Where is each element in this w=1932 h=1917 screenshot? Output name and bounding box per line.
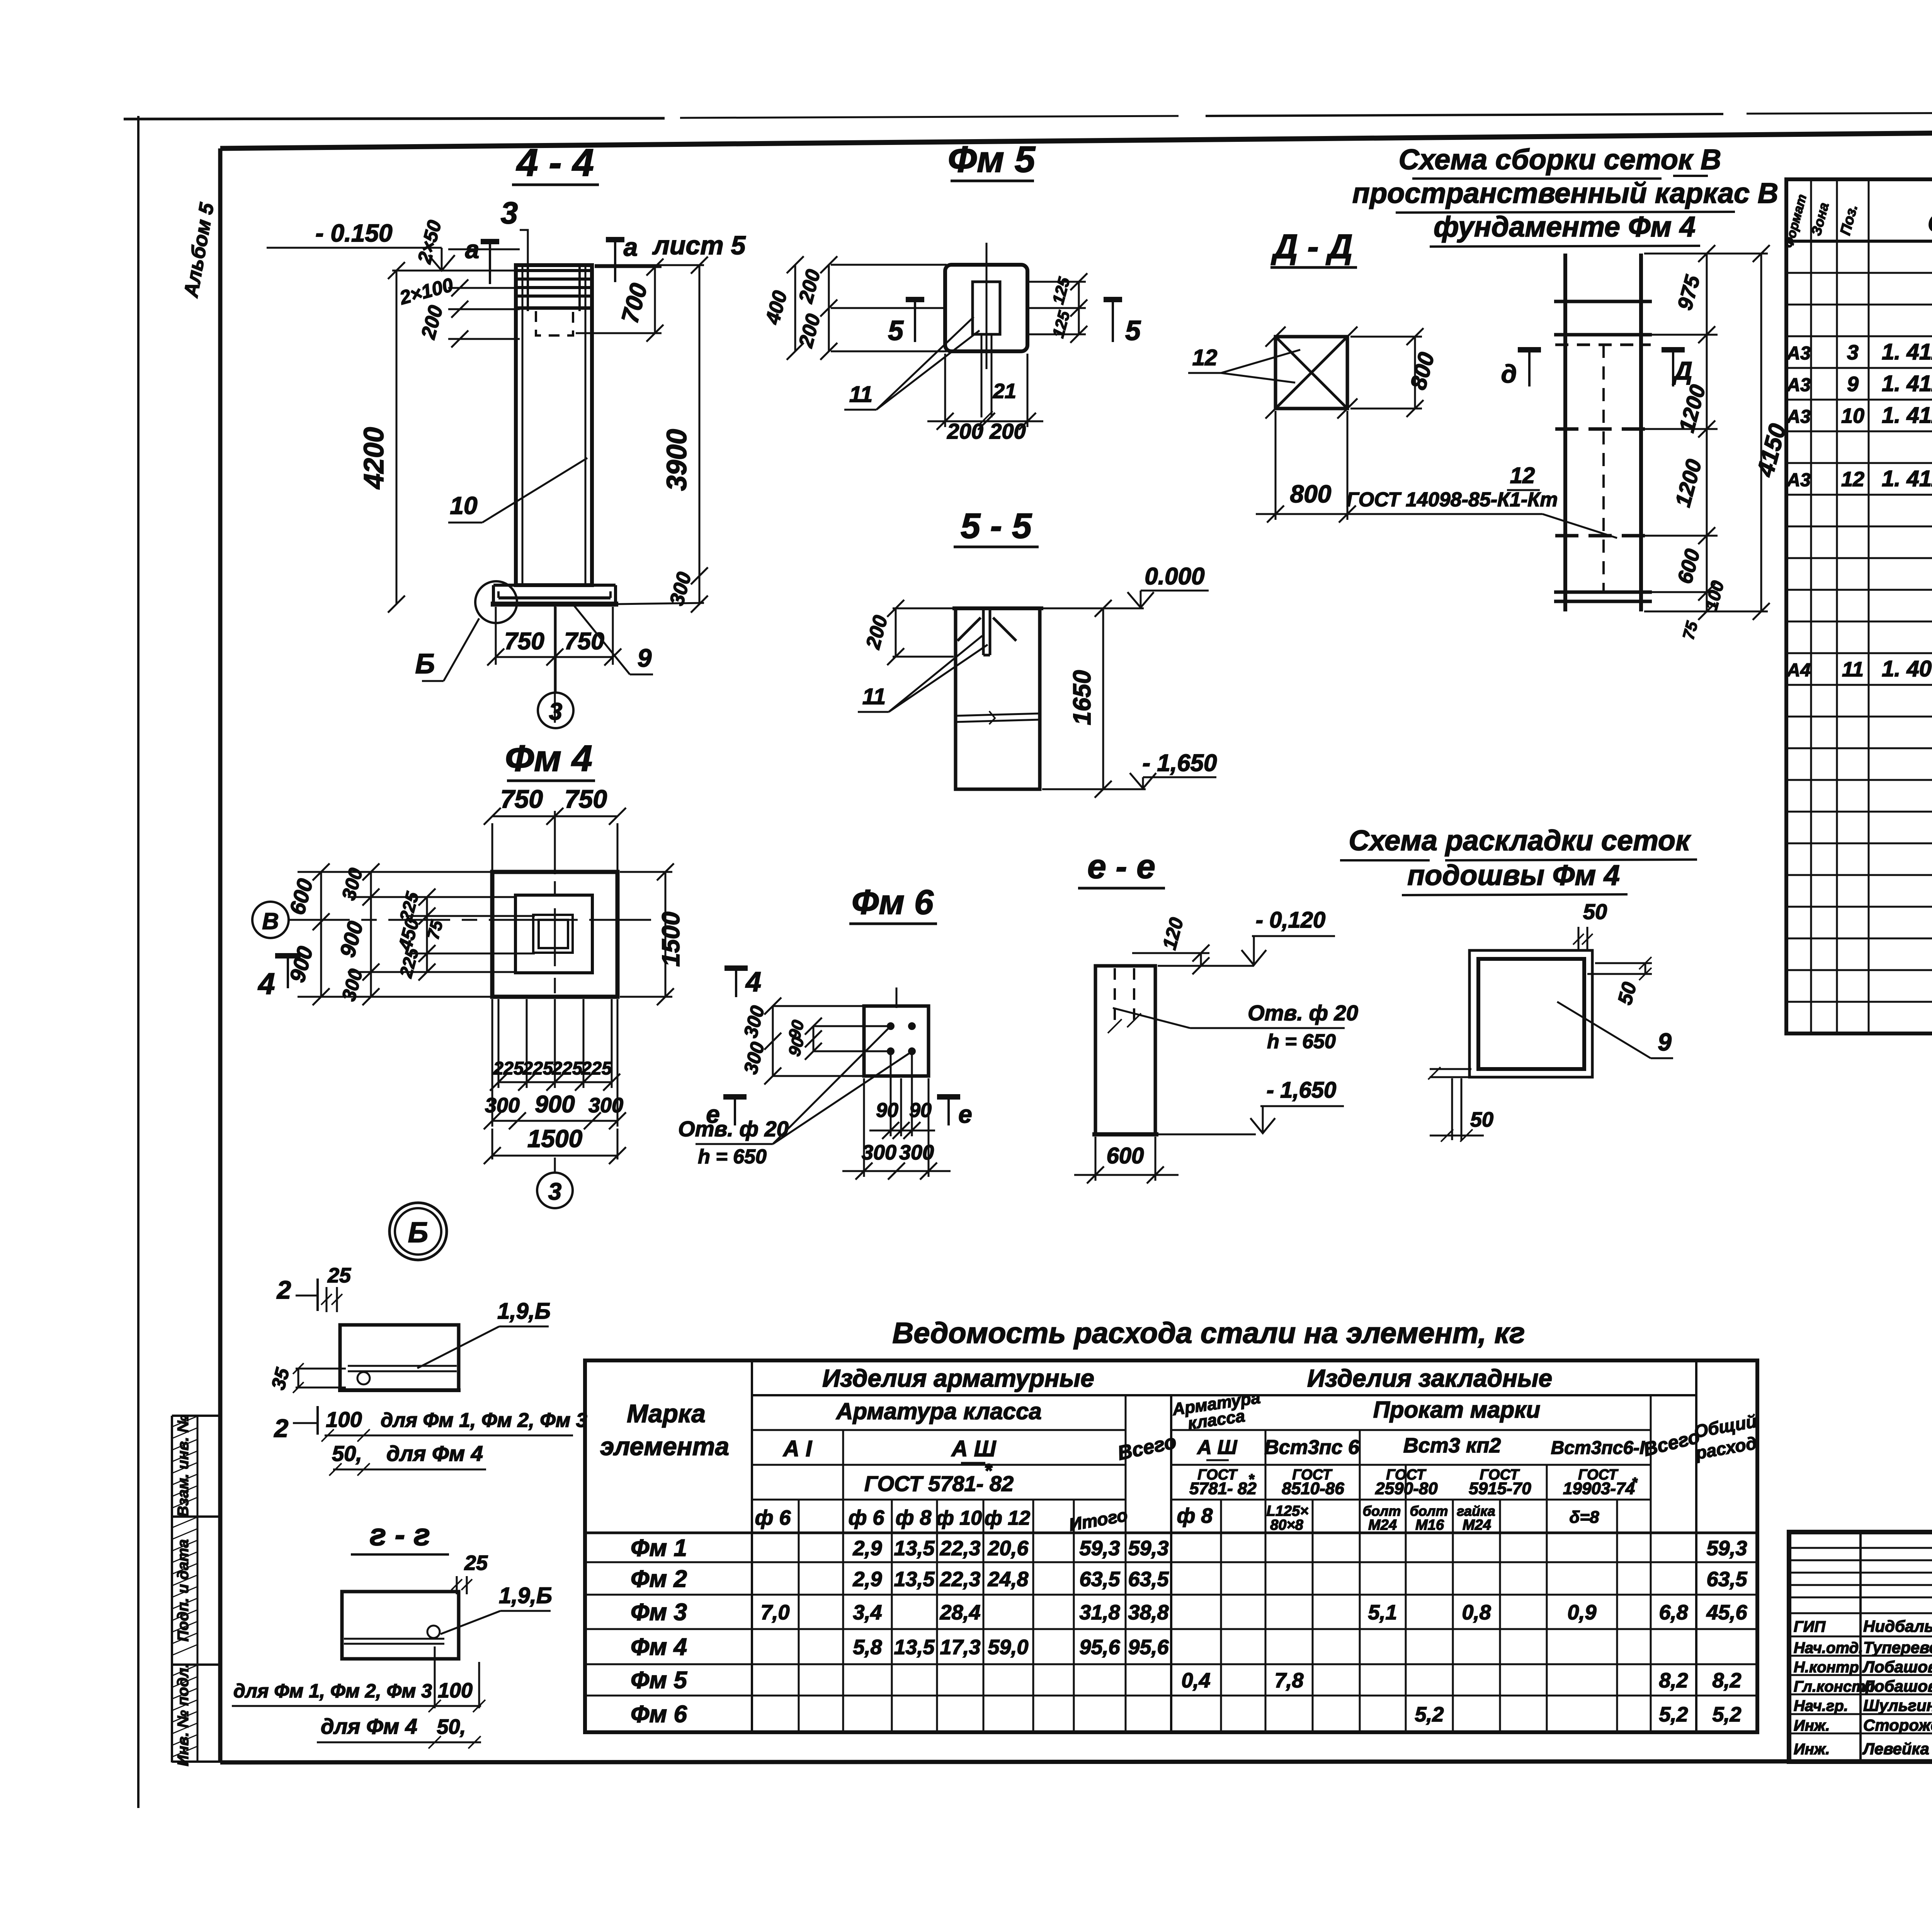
svg-text:5915-70: 5915-70 xyxy=(1469,1479,1531,1498)
break line xyxy=(956,713,1040,716)
svg-text:7,0: 7,0 xyxy=(760,1601,789,1624)
svg-text:ф 10: ф 10 xyxy=(936,1507,982,1529)
left dim column 300/900/300 xyxy=(370,872,372,997)
svg-text:пространственный каркас В: пространственный каркас В xyxy=(1352,177,1778,209)
svg-text:Фм 6: Фм 6 xyxy=(852,883,934,922)
svg-text:А4: А4 xyxy=(1786,660,1810,681)
svg-text:гайка: гайка xyxy=(1457,1503,1495,1519)
svg-text:24,8: 24,8 xyxy=(987,1568,1028,1591)
svg-text:фундаменте Фм 4: фундаменте Фм 4 xyxy=(1434,211,1696,243)
svg-text:6,8: 6,8 xyxy=(1659,1601,1688,1624)
bottom dim 1500 xyxy=(492,1155,617,1157)
svg-text:Фм 5: Фм 5 xyxy=(948,139,1036,180)
svg-text:59,0: 59,0 xyxy=(988,1636,1028,1659)
bottom dims 90 90 / 300 300 xyxy=(890,1054,892,1136)
svg-text:ф 6: ф 6 xyxy=(849,1506,885,1529)
svg-text:Нидбальский: Нидбальский xyxy=(1863,1617,1932,1635)
svg-text:В: В xyxy=(262,908,279,934)
column shaft of section 4-4 xyxy=(516,265,592,585)
right dims 125/125 xyxy=(1029,281,1086,283)
svg-text:2,9: 2,9 xyxy=(852,1568,882,1591)
svg-text:21: 21 xyxy=(993,380,1016,403)
svg-text:4: 4 xyxy=(745,967,761,998)
svg-text:12: 12 xyxy=(1192,345,1218,370)
dashed embed box in column head xyxy=(536,311,573,335)
svg-text:5,1: 5,1 xyxy=(1368,1601,1397,1624)
svg-text:А Ш: А Ш xyxy=(1197,1436,1238,1459)
svg-text:0,9: 0,9 xyxy=(1567,1601,1596,1624)
dim 35 xyxy=(296,1368,346,1370)
svg-text:Фм 3: Фм 3 xyxy=(631,1599,687,1626)
right dim 50 xyxy=(1595,962,1652,964)
plan outer square xyxy=(492,872,617,997)
column head mesh lines xyxy=(518,269,590,272)
svg-text:5,2: 5,2 xyxy=(1659,1703,1688,1726)
svg-text:для Фм 1, Фм 2, Фм 3: для Фм 1, Фм 2, Фм 3 xyxy=(381,1409,587,1432)
svg-text:Сторожева: Сторожева xyxy=(1863,1716,1932,1734)
leaders from note to holes xyxy=(773,1029,888,1144)
svg-text:болт: болт xyxy=(1363,1503,1401,1519)
svg-text:31,8: 31,8 xyxy=(1079,1601,1120,1624)
svg-text:А3: А3 xyxy=(1786,407,1811,427)
svg-text:59,3: 59,3 xyxy=(1128,1537,1168,1560)
svg-text:1. 412.1-6 Вып. 2-3: 1. 412.1-6 Вып. 2-3 xyxy=(1882,403,1932,428)
cage rungs xyxy=(1554,300,1652,303)
svg-text:225: 225 xyxy=(493,1058,524,1078)
dim 600 bottom of е-е xyxy=(1095,1137,1097,1181)
svg-text:95,6: 95,6 xyxy=(1079,1636,1120,1659)
outer sheet border top (scan-faded) xyxy=(124,118,665,119)
svg-text:Б: Б xyxy=(408,1216,428,1248)
svg-text:800: 800 xyxy=(1290,480,1332,508)
svg-text:0.000: 0.000 xyxy=(1145,563,1204,590)
svg-text:h = 650: h = 650 xyxy=(1267,1030,1336,1053)
svg-text:болт: болт xyxy=(1410,1503,1448,1519)
svg-text:Ведомость расхода стали на: Ведомость расхода стали на элемент, кг xyxy=(892,1317,1525,1350)
hole dots xyxy=(888,1023,894,1029)
top dims 750 750 of plan xyxy=(492,823,493,874)
svg-text:750: 750 xyxy=(564,628,604,655)
svg-text:Вст3пс6-I: Вст3пс6-I xyxy=(1551,1438,1645,1458)
svg-text:Д - Д: Д - Д xyxy=(1270,227,1352,266)
svg-text:А3: А3 xyxy=(1786,375,1811,395)
footing bottom rebar item 9 xyxy=(498,596,611,599)
svg-text:50: 50 xyxy=(1470,1108,1493,1131)
svg-text:1500: 1500 xyxy=(657,912,685,967)
svg-text:0,8: 0,8 xyxy=(1462,1601,1491,1624)
svg-text:*: * xyxy=(1632,1474,1638,1490)
svg-text:1,9,Б: 1,9,Б xyxy=(499,1583,552,1608)
left dim column 225/450/225 xyxy=(426,897,428,972)
steel table data row lines xyxy=(585,1561,1757,1563)
svg-text:Д: Д xyxy=(1672,356,1692,385)
axis line B horizontal xyxy=(288,919,653,921)
bar 1,9,Б lower xyxy=(344,1638,444,1640)
dim 1650 right of 5-5 xyxy=(1042,608,1144,609)
title block frame xyxy=(1789,1532,1932,1762)
Д-Д mesh square with diagonals xyxy=(1276,337,1347,409)
svg-text:Отв. ф 20: Отв. ф 20 xyxy=(678,1117,789,1141)
Фм6 plan square xyxy=(864,1006,929,1076)
svg-text:11: 11 xyxy=(862,684,886,709)
svg-text:М24: М24 xyxy=(1368,1517,1397,1533)
section mark 4 top-left xyxy=(735,968,737,997)
bottom dim row 300/900/300 xyxy=(492,999,493,1127)
bar 1,9,Б upper xyxy=(348,1365,457,1367)
svg-text:Фм 4: Фм 4 xyxy=(505,738,592,779)
svg-text:ГОСТ 14098-85-К1-Кт: ГОСТ 14098-85-К1-Кт xyxy=(1347,489,1558,511)
svg-text:А3: А3 xyxy=(1786,343,1811,364)
svg-text:600: 600 xyxy=(1107,1143,1144,1168)
plan middle square xyxy=(515,895,592,973)
svg-text:*: * xyxy=(1248,1471,1255,1488)
anchor legs + label 21 xyxy=(981,334,983,417)
svg-text:Нач.отд.: Нач.отд. xyxy=(1794,1639,1863,1657)
svg-text:28,4: 28,4 xyxy=(939,1601,980,1624)
svg-text:0,4: 0,4 xyxy=(1181,1669,1210,1692)
svg-text:9: 9 xyxy=(1847,373,1859,396)
svg-text:50: 50 xyxy=(1583,899,1607,924)
svg-text:900: 900 xyxy=(535,1091,575,1118)
svg-text:750: 750 xyxy=(504,628,544,655)
svg-text:9: 9 xyxy=(1658,1028,1672,1056)
svg-text:е - е: е - е xyxy=(1087,847,1155,885)
svg-text:200: 200 xyxy=(947,419,983,443)
svg-text:100: 100 xyxy=(326,1407,362,1432)
svg-text:5781- 82: 5781- 82 xyxy=(1189,1479,1257,1498)
svg-text:17,3: 17,3 xyxy=(940,1636,980,1659)
anchor bolts dashed xyxy=(1114,968,1116,1028)
svg-text:Н.контр: Н.контр xyxy=(1794,1659,1859,1676)
svg-text:4: 4 xyxy=(257,967,275,1001)
svg-text:1500: 1500 xyxy=(527,1125,582,1153)
svg-text:750: 750 xyxy=(500,785,543,813)
svg-text:11: 11 xyxy=(849,382,872,407)
bottom dims 750 750 xyxy=(495,607,497,665)
svg-text:10: 10 xyxy=(1841,404,1864,427)
detail bubble Б (double circle) xyxy=(389,1203,447,1260)
svg-text:Фм 6: Фм 6 xyxy=(631,1701,687,1728)
bottom-left dim 50 + 50 xyxy=(1430,1068,1471,1070)
svg-text:1. 412.1-6 Вып. 2-4: 1. 412.1-6 Вып. 2-4 xyxy=(1882,339,1932,364)
svg-text:8,2: 8,2 xyxy=(1659,1669,1688,1692)
svg-text:4200: 4200 xyxy=(359,427,389,490)
svg-text:5 - 5: 5 - 5 xyxy=(961,506,1032,546)
svg-text:Схема раскладки сеток: Схема раскладки сеток xyxy=(1349,824,1691,856)
svg-text:7,8: 7,8 xyxy=(1274,1669,1303,1692)
dim 200 left of 5-5 xyxy=(893,608,954,609)
svg-text:1. 412.1-6 Вып. 2-1: 1. 412.1-6 Вып. 2-1 xyxy=(1882,371,1932,396)
svg-text:13,5: 13,5 xyxy=(894,1636,935,1659)
svg-text:Нач.гр.: Нач.гр. xyxy=(1794,1697,1848,1714)
section marks 5-5 xyxy=(914,300,916,342)
svg-text:9: 9 xyxy=(638,644,652,672)
svg-text:ГИП: ГИП xyxy=(1794,1618,1826,1635)
svg-text:для Фм 1, Фм 2, Фм 3: для Фм 1, Фм 2, Фм 3 xyxy=(233,1680,432,1702)
inner drawing frame xyxy=(220,128,1932,148)
svg-text:А Ш: А Ш xyxy=(951,1436,997,1461)
svg-text:ф 8: ф 8 xyxy=(1177,1504,1213,1527)
detail rect (plan of edge) xyxy=(340,1325,459,1390)
svg-text:ф 6: ф 6 xyxy=(755,1506,791,1529)
bottom dims 200 200 xyxy=(944,354,946,427)
layout outer square xyxy=(1469,950,1592,1077)
svg-text:лист 5: лист 5 xyxy=(652,231,746,260)
svg-text:Шульгина: Шульгина xyxy=(1863,1696,1932,1714)
Фм5 square xyxy=(945,265,1027,351)
svg-text:225: 225 xyxy=(581,1058,612,1078)
cage overall dim 4150 xyxy=(1644,253,1768,255)
embedded plate МН506 plan xyxy=(973,282,1000,334)
svg-text:Обозначение: Обозначение xyxy=(1928,209,1932,237)
svg-text:13,5: 13,5 xyxy=(894,1568,935,1591)
spec table frame xyxy=(1786,179,1932,1033)
svg-text:- 1,650: - 1,650 xyxy=(1142,750,1217,776)
svg-text:3: 3 xyxy=(548,1178,561,1205)
svg-text:е: е xyxy=(958,1100,972,1128)
svg-text:Гл.констр: Гл.констр xyxy=(1794,1678,1875,1695)
centre line xyxy=(986,243,988,369)
axis bubble 3 below plan xyxy=(537,1173,573,1208)
svg-text:Фм 4: Фм 4 xyxy=(631,1634,687,1660)
svg-text:50,: 50, xyxy=(437,1715,466,1738)
svg-text:1650: 1650 xyxy=(1068,670,1096,725)
svg-text:Отв. ф 20: Отв. ф 20 xyxy=(1248,1001,1358,1025)
svg-text:д: д xyxy=(1501,359,1517,388)
svg-text:Фм 1: Фм 1 xyxy=(631,1535,687,1561)
svg-text:Левейка: Левейка xyxy=(1862,1740,1929,1758)
dim 120 + level -0.120 xyxy=(1158,965,1254,967)
svg-text:Изделия арматурные: Изделия арматурные xyxy=(822,1364,1094,1392)
svg-text:Вст3 кп2: Вст3 кп2 xyxy=(1403,1434,1501,1457)
steel table vertical column lines xyxy=(842,1430,844,1732)
svg-text:Арматура класса: Арматура класса xyxy=(835,1398,1042,1424)
section marks Д-Д on cage xyxy=(1528,350,1531,386)
svg-text:Прокат марки: Прокат марки xyxy=(1373,1397,1540,1423)
svg-text:Фм 2: Фм 2 xyxy=(631,1566,687,1592)
detail rect г-г xyxy=(342,1592,459,1659)
axis bubble В xyxy=(252,902,289,938)
svg-text:59,3: 59,3 xyxy=(1079,1537,1120,1560)
svg-text:4 - 4: 4 - 4 xyxy=(516,141,594,184)
5-5 column body xyxy=(956,608,1040,789)
svg-text:1. 412.1- 6.0 - 7см: 1. 412.1- 6.0 - 7см xyxy=(1882,466,1932,491)
plan inner double square xyxy=(533,915,573,953)
svg-text:Инж.: Инж. xyxy=(1794,1717,1830,1734)
svg-text:63,5: 63,5 xyxy=(1079,1568,1120,1591)
svg-text:2,9: 2,9 xyxy=(852,1537,882,1560)
left dim column 600/900 xyxy=(320,872,322,997)
svg-text:13,5: 13,5 xyxy=(894,1537,935,1560)
bottom dim row 225x4 xyxy=(498,999,500,1088)
svg-text:3: 3 xyxy=(1847,341,1859,364)
dim 800 bottom of Д-Д xyxy=(1275,411,1277,520)
svg-text:63,5: 63,5 xyxy=(1706,1568,1747,1591)
svg-text:Схема сборки сеток В: Схема сборки сеток В xyxy=(1399,143,1721,175)
outer sheet border left xyxy=(137,116,139,1808)
svg-text:3: 3 xyxy=(549,698,562,725)
svg-text:90: 90 xyxy=(876,1099,898,1122)
svg-text:подошвы Фм 4: подошвы Фм 4 xyxy=(1407,859,1620,891)
dim 800 right of Д-Д xyxy=(1350,336,1422,338)
svg-text:5,2: 5,2 xyxy=(1712,1703,1741,1726)
svg-text:Вст3пс 6: Вст3пс 6 xyxy=(1264,1436,1360,1459)
dim 4200 left xyxy=(396,271,398,604)
svg-text:3: 3 xyxy=(501,196,518,230)
spatial cage (ladder) bars xyxy=(1563,254,1567,611)
svg-text:Лобашов: Лобашов xyxy=(1862,1677,1932,1695)
svg-text:8510-86: 8510-86 xyxy=(1282,1479,1344,1498)
svg-text:Тупереверский: Тупереверский xyxy=(1863,1638,1932,1657)
svg-text:δ=8: δ=8 xyxy=(1569,1508,1599,1527)
axis bubble 3 xyxy=(538,693,573,728)
detail circle Б on footing xyxy=(475,581,517,623)
small top dims 2x50 2x100 200 xyxy=(448,249,520,250)
svg-text:2: 2 xyxy=(274,1414,289,1442)
centre line vertical xyxy=(896,987,898,1008)
svg-text:8,2: 8,2 xyxy=(1712,1669,1741,1692)
cage dims right (975/1200/1200/600/100/75/4150) xyxy=(1644,253,1718,255)
svg-text:А3: А3 xyxy=(1786,470,1811,490)
svg-text:для Фм 4: для Фм 4 xyxy=(386,1441,483,1466)
svg-text:5,2: 5,2 xyxy=(1415,1703,1444,1726)
svg-text:12: 12 xyxy=(1841,468,1864,491)
svg-text:- 0,120: - 0,120 xyxy=(1256,907,1326,933)
svg-text:ф 8: ф 8 xyxy=(896,1506,932,1529)
plan axis vertical to bubble 3 xyxy=(554,812,556,999)
svg-text:300: 300 xyxy=(485,1094,520,1117)
svg-text:22,3: 22,3 xyxy=(939,1568,980,1591)
section marks е-е xyxy=(734,1097,736,1125)
left dims 200/200/400 xyxy=(831,264,947,266)
svg-text:100: 100 xyxy=(438,1679,473,1702)
svg-text:h = 650: h = 650 xyxy=(698,1146,767,1168)
stamp box hatching xyxy=(173,1416,197,1427)
svg-text:45,6: 45,6 xyxy=(1706,1601,1747,1624)
dim 700 right of column head xyxy=(595,266,662,268)
cage centre dashed bar xyxy=(1602,345,1605,592)
left dims 300/300 + 90/90 xyxy=(773,1005,866,1007)
column footing xyxy=(493,584,516,587)
svg-text:59,3: 59,3 xyxy=(1706,1537,1747,1560)
svg-text:22,3: 22,3 xyxy=(939,1537,980,1560)
svg-text:А I: А I xyxy=(782,1436,813,1461)
svg-text:Фм 5: Фм 5 xyxy=(631,1667,687,1694)
svg-text:300: 300 xyxy=(862,1141,896,1164)
section marks a-a xyxy=(489,242,491,284)
svg-text:Б: Б xyxy=(415,649,435,679)
svg-text:10: 10 xyxy=(450,492,477,519)
svg-text:12: 12 xyxy=(1510,463,1535,488)
svg-text:300: 300 xyxy=(899,1141,934,1164)
svg-text:750: 750 xyxy=(565,785,607,813)
svg-text:200: 200 xyxy=(989,419,1026,443)
svg-text:а: а xyxy=(624,233,638,261)
svg-text:Инж.: Инж. xyxy=(1794,1741,1830,1758)
svg-text:63,5: 63,5 xyxy=(1128,1568,1169,1591)
title block signature grid xyxy=(1859,1532,1862,1762)
svg-text:1,9,Б: 1,9,Б xyxy=(497,1299,551,1324)
svg-text:3,4: 3,4 xyxy=(853,1601,882,1624)
svg-text:М24: М24 xyxy=(1463,1517,1491,1533)
svg-text:2590-80: 2590-80 xyxy=(1375,1479,1438,1498)
svg-text:11: 11 xyxy=(1842,658,1864,681)
left margin stamp boxes xyxy=(171,1416,173,1762)
svg-text:3900: 3900 xyxy=(662,429,692,491)
е-е column body xyxy=(1095,966,1155,1134)
svg-text:225: 225 xyxy=(522,1058,553,1078)
right dim 1500 vertical xyxy=(620,871,672,873)
svg-text:50,: 50, xyxy=(332,1441,362,1466)
svg-text:г - г: г - г xyxy=(370,1517,430,1552)
svg-text:*: * xyxy=(984,1460,993,1481)
steel table frame xyxy=(585,1360,1757,1732)
dim 3900 right xyxy=(595,264,704,266)
svg-text:20,6: 20,6 xyxy=(987,1537,1029,1560)
svg-text:Изделия закладные: Изделия закладные xyxy=(1307,1364,1552,1392)
svg-text:300: 300 xyxy=(588,1094,623,1117)
svg-text:225: 225 xyxy=(552,1058,583,1078)
svg-text:Марка: Марка xyxy=(627,1399,706,1428)
svg-text:ф 12: ф 12 xyxy=(985,1507,1030,1529)
svg-text:- 0.150: - 0.150 xyxy=(315,219,392,247)
svg-text:25: 25 xyxy=(327,1264,351,1287)
svg-text:5: 5 xyxy=(1125,315,1141,346)
svg-text:- 1,650: - 1,650 xyxy=(1267,1078,1337,1103)
svg-text:38,8: 38,8 xyxy=(1128,1601,1168,1624)
layout mesh square (item 9) xyxy=(1478,959,1584,1069)
svg-text:1. 400 - 15. В1 510 - 05: 1. 400 - 15. В1 510 - 05 xyxy=(1882,656,1932,681)
svg-text:19903-74: 19903-74 xyxy=(1563,1479,1635,1498)
svg-text:2: 2 xyxy=(276,1275,291,1304)
svg-text:М16: М16 xyxy=(1415,1517,1444,1533)
svg-text:5,8: 5,8 xyxy=(853,1636,882,1659)
svg-text:95,6: 95,6 xyxy=(1128,1636,1169,1659)
svg-text:Лобашов: Лобашов xyxy=(1862,1658,1932,1676)
svg-text:5: 5 xyxy=(888,315,904,346)
svg-text:80×8: 80×8 xyxy=(1270,1517,1303,1533)
steel table header lines xyxy=(751,1360,753,1732)
embedded channel МН506 in 5-5 xyxy=(982,610,985,655)
svg-text:для Фм 4: для Фм 4 xyxy=(321,1714,417,1738)
svg-text:25: 25 xyxy=(464,1551,488,1575)
svg-text:элемента: элемента xyxy=(600,1432,729,1461)
